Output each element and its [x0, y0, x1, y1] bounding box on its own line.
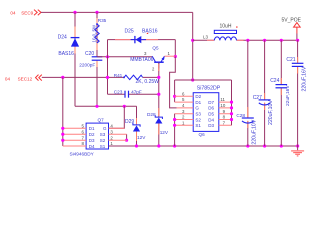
wire Q7 S3-S2 link x=126.6 [126, 134, 128, 140]
port SEC12 [5, 75, 42, 82]
diode D25 [125, 28, 158, 43]
svg-text:SEC12: SEC12 [18, 76, 33, 81]
svg-text:2K, 0.25W: 2K, 0.25W [136, 79, 160, 85]
wire C23 row y=94.2 [108, 93, 159, 95]
svg-text:BAS16: BAS16 [142, 28, 158, 34]
node junction (231.5,119.5) [230, 118, 233, 121]
svg-text:MMBTA06: MMBTA06 [130, 57, 153, 63]
capacitor C24 [270, 40, 291, 146]
svg-text:10: 10 [220, 103, 225, 108]
wire Q6 drain bus x=231.5 [231, 80, 233, 125]
svg-text:C21: C21 [286, 57, 295, 63]
svg-text:04: 04 [5, 76, 11, 81]
wire Q5 collector to node [164, 55, 175, 57]
svg-text:D1: D1 [195, 100, 201, 105]
svg-text:R41: R41 [114, 73, 123, 78]
node junction (62.8,128.3) [61, 127, 64, 130]
svg-text:D4: D4 [89, 144, 95, 149]
node junction (158.8,94.2) [157, 93, 160, 96]
node junction (97,12) [95, 11, 98, 14]
svg-text:S3: S3 [195, 112, 201, 117]
svg-text:D25: D25 [125, 28, 134, 34]
wire column x=107.5 [107, 40, 109, 95]
diode D24 [58, 35, 80, 58]
capacitor C28 [236, 40, 257, 146]
wire top corner column x=192.7 [192, 12, 194, 80]
node junction (136.5,146) [135, 144, 138, 147]
svg-text:2200pF: 2200pF [79, 63, 95, 68]
node junction (107.5,56.8) [106, 55, 109, 58]
svg-text:D24: D24 [58, 35, 67, 41]
wire drain net y=80 [175, 79, 232, 81]
wire SEC12/R41 row y=77.4 [42, 76, 124, 78]
svg-text:Q7: Q7 [98, 118, 105, 123]
wire Q7 left pin rows [63, 128, 86, 146]
node junction (107.5,77.4) [106, 76, 109, 79]
resistor R35 [91, 18, 106, 43]
wire gate staircase [170, 57, 177, 108]
node junction (264.6,40.3) [263, 39, 266, 42]
svg-text:C27: C27 [253, 95, 262, 101]
svg-text:S2: S2 [195, 117, 201, 122]
node junction (231.5,113.7) [230, 112, 233, 115]
node junction (281.3,40.3) [280, 39, 283, 42]
wire R41 to emitter [143, 76, 159, 78]
inductor L3 [203, 23, 238, 40]
wire drain left branch x=174.6 [174, 80, 176, 102]
node junction (97,106.3) [95, 105, 98, 108]
svg-text:10uH: 10uH [220, 23, 232, 29]
wire R35/C20 column x=97 [96, 12, 98, 106]
svg-text:Si4946BDY: Si4946BDY [70, 151, 95, 156]
node junction (62.8,140.2) [61, 139, 64, 142]
node junction (231.5,107.9) [230, 106, 233, 109]
svg-text:S1: S1 [195, 123, 201, 128]
wire Q6 left pin rows [175, 96, 194, 125]
svg-text:D29: D29 [125, 119, 134, 125]
capacitor C23 [114, 90, 142, 98]
svg-text:D2: D2 [195, 94, 201, 99]
ground [291, 146, 304, 156]
node junction (174.6,125.3) [173, 124, 176, 127]
wire Q7 gate link x=124.3 [109, 106, 125, 128]
svg-text:D5: D5 [208, 112, 214, 117]
node junction (247.8,40.3) [246, 39, 249, 42]
IC Q6 Si7852DP [182, 85, 226, 136]
svg-text:10.0,.5W: 10.0,.5W [91, 24, 96, 42]
svg-text:04: 04 [10, 11, 16, 16]
wire D25 right corner down to Q5 node x=175.3 [174, 40, 176, 57]
node junction (297.6,146) [296, 144, 299, 147]
svg-text:S2: S2 [100, 138, 106, 143]
node junction (231.5,102.1) [230, 101, 233, 104]
svg-text:C28: C28 [236, 113, 245, 118]
wire C20 top to Q5 base y=56.8 [97, 56, 152, 58]
svg-text:D4: D4 [208, 117, 214, 122]
svg-text:G: G [103, 126, 107, 131]
node junction (264.6,146) [263, 144, 266, 147]
node junction (174.6,96.3) [173, 95, 176, 98]
wire Q5 emitter column x=158.8 [158, 63, 160, 117]
svg-text:12V: 12V [137, 135, 146, 140]
power symbol 5V_POE [282, 17, 302, 40]
node junction (158.8,77.4) [157, 76, 160, 79]
wire D25 bridge y=39.6 [108, 39, 176, 41]
node junction (174.6,146) [173, 144, 176, 147]
svg-text:Q6: Q6 [199, 132, 206, 137]
svg-text:C23: C23 [114, 90, 123, 95]
zener D29 [125, 106, 146, 146]
svg-text:L3: L3 [203, 35, 208, 40]
node junction (124.3,106.3) [123, 105, 126, 108]
wire SEC9 top rail [41, 11, 193, 13]
svg-text:SEC9: SEC9 [21, 11, 33, 16]
node junction (247.8,146) [246, 144, 249, 147]
port SEC9 [10, 10, 41, 16]
capacitor C21 [286, 40, 307, 146]
svg-text:Q5: Q5 [152, 46, 159, 51]
svg-text:D2: D2 [89, 132, 95, 137]
svg-text:D1: D1 [89, 126, 95, 131]
node junction (175.3,56.5) [174, 55, 177, 58]
node junction (75,12) [73, 11, 76, 14]
svg-text:G: G [195, 106, 199, 111]
svg-text:5V_POE: 5V_POE [282, 17, 302, 23]
svg-text:47pF: 47pF [131, 90, 142, 95]
capacitor C20 [79, 51, 102, 68]
node junction (62.8,134.2) [61, 133, 64, 136]
node junction (192.7,40.3) [191, 39, 194, 42]
wire Q6 source bus x=174.6 [174, 114, 176, 146]
svg-text:Si7852DP: Si7852DP [197, 85, 221, 91]
svg-text:D7: D7 [208, 100, 214, 105]
node junction (62.8,77.4) [61, 76, 64, 79]
svg-text:22uF,16V: 22uF,16V [285, 85, 291, 106]
wire gate net y=106.3 [75, 105, 137, 107]
svg-text:11: 11 [220, 97, 225, 102]
svg-text:D3: D3 [208, 123, 214, 128]
svg-text:D28: D28 [147, 112, 156, 117]
svg-text:R35: R35 [98, 18, 107, 23]
capacitor C27 [253, 40, 274, 146]
svg-text:220uF,10V: 220uF,10V [251, 119, 257, 144]
wire SEC12 branch column x=62.8 [62, 77, 64, 146]
svg-text:C20: C20 [85, 51, 94, 57]
svg-text:C24: C24 [270, 78, 279, 84]
svg-text:220uF,16V: 220uF,16V [301, 66, 307, 91]
node junction (192.7,80) [191, 78, 194, 81]
svg-text:12V: 12V [160, 130, 169, 135]
svg-text:BAS16: BAS16 [58, 51, 74, 57]
svg-text:S1: S1 [100, 144, 106, 149]
node junction (174.6,119.5) [173, 118, 176, 121]
wire L3 rail y=40.3 [193, 39, 298, 41]
node junction (281.3,146) [280, 144, 283, 147]
svg-text:220uF,10V: 220uF,10V [268, 100, 274, 125]
zener D28 [147, 112, 169, 146]
node junction (126.6,140.2) [125, 139, 128, 142]
node junction (158.8,146) [157, 144, 160, 147]
wire Q6 right pin rows [219, 102, 232, 125]
svg-text:D3: D3 [89, 138, 95, 143]
svg-text:S3: S3 [100, 132, 106, 137]
wire D24 column x=75 [74, 12, 76, 106]
svg-text:D6: D6 [208, 106, 214, 111]
IC Q7 Si4946BDY [70, 118, 114, 157]
node junction (297.6,40.3) [296, 39, 299, 42]
wire Q7 right pin rows [109, 128, 127, 146]
resistor R41 [114, 73, 159, 85]
wire ground rail y=146 [109, 145, 298, 147]
transistor Q5 MMBTA06 [130, 46, 170, 72]
